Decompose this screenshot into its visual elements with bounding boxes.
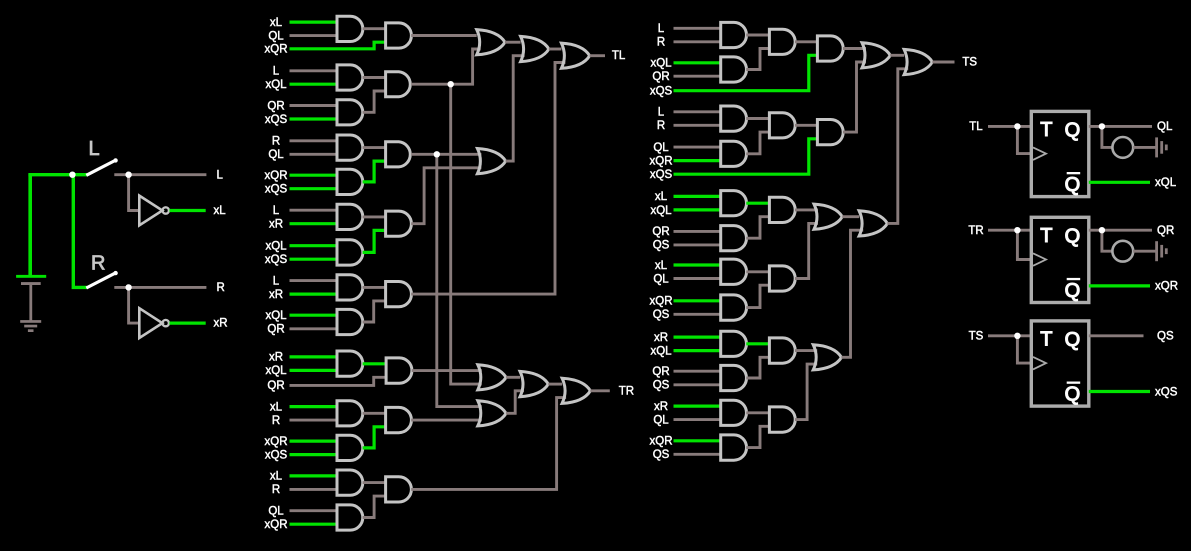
- wire OR-A to OR-B: [506, 376, 520, 379]
- wire g6 output to OR-A: [412, 369, 482, 372]
- svg-text:QL: QL: [268, 149, 284, 161]
- svg-text:xQR: xQR: [650, 296, 673, 308]
- svg-text:xL: xL: [655, 260, 668, 272]
- wire t1 output to OR-TS1: [843, 47, 866, 50]
- svg-text:L: L: [658, 23, 665, 35]
- wire g2a output: [363, 76, 386, 79]
- battery negative plate: [21, 282, 41, 285]
- switch R lever: [86, 271, 118, 288]
- wire t6a output: [746, 411, 769, 414]
- svg-text:xQL: xQL: [265, 310, 287, 322]
- wire input xQL (group 2): [290, 83, 338, 86]
- svg-text:TL: TL: [612, 50, 626, 62]
- svg-text:xR: xR: [269, 352, 283, 364]
- AND gate t3c: [769, 197, 795, 222]
- flip-flop FF3 clock triangle: [1033, 357, 1046, 370]
- OR gate OR-A: [478, 365, 506, 390]
- svg-text:xQS: xQS: [650, 86, 673, 98]
- AND gate g1b: [386, 23, 412, 48]
- svg-text:xL: xL: [270, 401, 283, 413]
- wire input xQL (group 5): [290, 314, 338, 317]
- svg-text:xQL: xQL: [650, 58, 672, 70]
- svg-text:xQL: xQL: [650, 345, 672, 357]
- svg-text:xQR: xQR: [265, 44, 288, 56]
- AND gate t5c: [769, 338, 795, 363]
- AND gate g7b (xQR,xQS): [337, 435, 363, 460]
- svg-text:xQL: xQL: [265, 79, 287, 91]
- wire OR-T56 output up to OR-TALL: [842, 230, 864, 357]
- AND gate t1c: [769, 29, 795, 54]
- svg-text:QR: QR: [652, 71, 669, 83]
- svg-text:QR: QR: [652, 366, 669, 378]
- flip-flop FF2 body: [1031, 217, 1089, 302]
- pin label Q-bar overline (FF3): [1067, 382, 1081, 384]
- wire t4b output elbow: [746, 285, 769, 307]
- svg-text:R: R: [217, 282, 225, 294]
- AND gate g8b (QL,xQR): [337, 505, 363, 530]
- svg-text:T: T: [1040, 329, 1052, 351]
- wire supply top rail to switches: [28, 173, 87, 176]
- svg-text:TS: TS: [962, 57, 977, 69]
- wire g6a output: [363, 362, 387, 365]
- svg-text:xR: xR: [269, 219, 283, 231]
- svg-text:R: R: [272, 415, 280, 427]
- wire input R (group 8): [290, 488, 338, 491]
- svg-text:xQS: xQS: [265, 254, 288, 266]
- pin label Q-bar overline (FF2): [1067, 278, 1081, 280]
- svg-text:TR: TR: [968, 225, 983, 237]
- wire input xQS (group 2): [290, 117, 338, 120]
- svg-text:L: L: [273, 275, 280, 287]
- junction FF2 Q branch: [1099, 227, 1105, 233]
- flip-flop FF1 body: [1031, 111, 1089, 196]
- svg-text:R: R: [272, 136, 280, 148]
- AND gate g6b: [386, 358, 412, 383]
- wire node L to inverter: [129, 175, 140, 211]
- wire input QR elbow (group 6): [290, 377, 387, 385]
- wire t4a output: [746, 270, 769, 273]
- AND gate t5a (xR,xQL): [721, 331, 747, 356]
- svg-text:xL: xL: [270, 17, 283, 29]
- wire input R (TS group 1): [674, 40, 721, 43]
- wire OR-T34 to OR-TALL: [842, 215, 859, 218]
- wire switch R output: [114, 286, 206, 289]
- wire OR-B to OR-D: [548, 383, 562, 386]
- AND gate t2a (L,R): [721, 106, 747, 131]
- switch L lever: [86, 158, 118, 175]
- AND gate g3c: [386, 142, 411, 167]
- wire input xQR (group 3): [290, 174, 338, 177]
- svg-text:QS: QS: [1157, 331, 1174, 343]
- svg-text:R: R: [657, 120, 665, 132]
- flip-flop FF1 clock triangle: [1033, 147, 1046, 160]
- wire g8b output elbow: [363, 496, 386, 517]
- svg-text:xL: xL: [214, 205, 227, 217]
- wire g4b output elbow: [363, 230, 386, 252]
- ground symbol: [20, 320, 41, 332]
- wire g7 output to OR-C: [411, 419, 482, 422]
- svg-text:QL: QL: [653, 273, 669, 285]
- wire g1 output to OR1: [411, 34, 477, 37]
- svg-text:xQS: xQS: [1155, 386, 1178, 398]
- svg-text:xQS: xQS: [650, 169, 673, 181]
- AND gate t3a (xL,xQL): [721, 191, 747, 216]
- wire node R to inverter: [129, 287, 140, 323]
- AND gate t2b (QL,xQR): [721, 141, 747, 166]
- svg-text:xQR: xQR: [265, 170, 288, 182]
- svg-text:QS: QS: [653, 449, 670, 461]
- wire FF3 Q output: [1089, 334, 1144, 337]
- svg-text:Q: Q: [1065, 384, 1081, 406]
- OR gate OR-B: [520, 371, 548, 396]
- wire input xL (group 8): [290, 474, 338, 477]
- ground symbol rotated (FF2): [1155, 241, 1168, 261]
- OR gate OR-TS1: [862, 43, 890, 68]
- svg-text:Q: Q: [1065, 120, 1081, 142]
- svg-text:QS: QS: [653, 309, 670, 321]
- wire t3b output elbow: [746, 217, 769, 239]
- wire input xQS (group 3): [290, 187, 338, 190]
- wire input xQL (group 6): [290, 369, 338, 372]
- wire t6 output up to OR-T56: [795, 364, 817, 420]
- wire input xQR (group 8): [290, 523, 338, 526]
- AND gate g5c: [386, 282, 412, 307]
- wire g8 output to OR-D: [411, 398, 566, 490]
- AND gate g8a (xL,R): [337, 470, 363, 495]
- wire OR-TS1 to OR-TS2: [890, 54, 904, 57]
- wire input xR (group 4): [290, 222, 338, 225]
- wire input xQL (TS group 5): [674, 349, 721, 352]
- AND gate g4b (xQL,xQS): [337, 240, 363, 265]
- ground symbol rotated (FF1): [1155, 137, 1168, 157]
- svg-text:L: L: [273, 205, 280, 217]
- wire input xR (group 5): [290, 293, 338, 296]
- wire input QS (TS group 3): [674, 243, 721, 246]
- wire input xR (TS group 5): [674, 336, 721, 339]
- wire supply vertical: [28, 174, 32, 276]
- junction FF1 clock branch: [1014, 123, 1020, 129]
- svg-text:QR: QR: [1157, 225, 1174, 237]
- svg-text:xL: xL: [655, 191, 668, 203]
- wire t5 output to OR-T56: [795, 349, 817, 352]
- svg-text:xR: xR: [269, 289, 283, 301]
- wire OR-M output up to OR2: [506, 56, 525, 161]
- svg-text:QR: QR: [267, 380, 284, 392]
- wire t3a output: [746, 202, 769, 205]
- wire input xQL (TS group 1): [674, 61, 721, 64]
- wire FF3 Q-bar output: [1089, 390, 1150, 393]
- wire input xQL (group 4): [290, 244, 338, 247]
- AND gate t1a (L,R): [721, 22, 747, 47]
- OR gate OR-T34: [814, 204, 842, 229]
- svg-text:xQL: xQL: [650, 205, 672, 217]
- inverter xL: [139, 196, 169, 226]
- wire FF2 Q to LED: [1102, 230, 1112, 251]
- junction FF2 clock branch: [1014, 227, 1020, 233]
- wire t5b output elbow: [746, 357, 769, 378]
- wire input QL (group 8): [290, 509, 338, 512]
- wire t2b output elbow: [746, 132, 769, 154]
- svg-text:xR: xR: [654, 401, 668, 413]
- wire t2 output up to OR-TS1: [843, 62, 866, 132]
- wire g3 branch down to OR-C: [437, 154, 482, 406]
- wire t1a output: [746, 34, 769, 37]
- wire g3b output elbow: [363, 161, 386, 182]
- svg-text:xQS: xQS: [265, 449, 288, 461]
- wire input xQR (TS group 2): [674, 159, 721, 162]
- AND gate t6c: [769, 407, 795, 432]
- wire TS output: [932, 61, 954, 64]
- wire input R (group 3): [290, 139, 338, 142]
- svg-text:QR: QR: [267, 100, 284, 112]
- AND gate t2d: [817, 120, 843, 145]
- svg-text:xQS: xQS: [265, 114, 288, 126]
- AND gate g3a (R,QL): [337, 135, 363, 160]
- wire inverter xR output: [170, 322, 206, 325]
- junction FF3 clock branch: [1014, 333, 1020, 339]
- svg-text:xQS: xQS: [265, 184, 288, 196]
- wire input xR (TS group 6): [674, 405, 721, 408]
- wire input xL (group 7): [290, 405, 338, 408]
- svg-text:xQR: xQR: [1155, 281, 1178, 293]
- svg-text:Q: Q: [1065, 329, 1081, 351]
- svg-text:Q: Q: [1065, 226, 1081, 248]
- AND gate t6a (xR,QL): [721, 400, 747, 425]
- AND gate t6b (xQR,QS): [721, 435, 747, 460]
- wire input QR (group 5): [290, 327, 338, 330]
- LED indicator QR: [1112, 241, 1133, 262]
- flip-flop FF2 clock triangle: [1033, 253, 1046, 265]
- svg-text:T: T: [1040, 225, 1052, 247]
- wire g5 output to OR3: [411, 63, 565, 295]
- wire g3 output to OR-M: [411, 153, 481, 156]
- wire input QL (TS group 4): [674, 277, 721, 280]
- OR gate OR2: [521, 36, 549, 61]
- wire TR to FF2: [988, 229, 1031, 232]
- wire g3a output: [363, 146, 386, 149]
- wire t6b output elbow: [746, 426, 769, 447]
- svg-text:QL: QL: [268, 30, 284, 42]
- wire g2 branch down to OR-A: [451, 84, 482, 384]
- wire input QR (TS group 3): [674, 230, 721, 233]
- wire t2c output: [795, 124, 817, 127]
- svg-text:QR: QR: [267, 324, 284, 336]
- svg-text:Q: Q: [1065, 280, 1081, 302]
- wire input QR (TS group 5): [674, 370, 721, 373]
- wire t3 output to OR-T34: [795, 208, 818, 211]
- AND gate g8c: [386, 477, 412, 502]
- svg-text:xQL: xQL: [265, 365, 287, 377]
- wire g2b output elbow: [363, 91, 386, 112]
- junction node R: [125, 284, 131, 290]
- wire input xQS (group 7): [290, 453, 338, 456]
- wire g1a output: [363, 27, 386, 30]
- wire input QS (TS group 5): [674, 383, 721, 386]
- wire g2 output to OR1 elbow: [411, 49, 481, 84]
- wire input L (TS group 2): [674, 110, 721, 113]
- power source and input switches section: [0, 0, 1, 1]
- wire input xR (group 6): [290, 355, 338, 358]
- svg-text:TR: TR: [619, 385, 634, 397]
- wire input xQR elbow (group 1): [290, 42, 386, 49]
- svg-text:QS: QS: [653, 240, 670, 252]
- OR gate OR3: [561, 43, 589, 68]
- wire input QL (TS group 2): [674, 146, 721, 149]
- wire input QR (group 2): [290, 104, 338, 107]
- AND gate g2c: [386, 72, 411, 97]
- wire input L (group 5): [290, 279, 338, 282]
- wire input QR (TS group 1): [674, 75, 721, 78]
- wire input QL (TS group 6): [674, 418, 721, 421]
- svg-text:QR: QR: [652, 226, 669, 238]
- wire g7a output: [363, 412, 386, 415]
- wire input L (group 2): [290, 69, 338, 72]
- junction g3 output branch: [434, 151, 440, 157]
- inverter xR: [139, 308, 169, 338]
- wire switch L output: [114, 173, 206, 176]
- pin label Q-bar overline (FF1): [1067, 172, 1081, 174]
- svg-text:xQL: xQL: [1155, 177, 1177, 189]
- wire input xQR (group 7): [290, 440, 338, 443]
- junction node L: [125, 172, 131, 178]
- wire input xL (group 1): [290, 21, 338, 24]
- svg-text:Q: Q: [1065, 174, 1081, 196]
- wire g7b output elbow: [363, 427, 386, 448]
- wire input QS (TS group 6): [674, 453, 721, 456]
- wire FF1 Q output: [1089, 125, 1152, 128]
- LED indicator QL: [1112, 137, 1133, 158]
- AND gate t4c: [769, 266, 795, 291]
- wire input L (TS group 1): [674, 27, 721, 30]
- AND gate g6a (xR,xQL): [337, 351, 363, 376]
- wire g4 output to OR-M: [411, 168, 481, 224]
- AND gate t2c: [769, 113, 795, 138]
- svg-text:xQR: xQR: [265, 436, 288, 448]
- AND gate g4c: [386, 211, 412, 236]
- wire g8a output: [363, 481, 386, 484]
- svg-text:QL: QL: [653, 142, 669, 154]
- AND gate g2b (QR,xQS): [337, 100, 363, 125]
- wire OR-TALL output up to OR-TS2: [887, 69, 908, 224]
- svg-text:TL: TL: [969, 121, 983, 133]
- OR gate OR-TS2: [904, 49, 932, 74]
- wire FF3 clock elbow: [1017, 336, 1031, 363]
- wire TL output: [590, 54, 605, 57]
- wire battery to ground: [29, 285, 32, 322]
- AND gate t3b (QR,QS): [721, 226, 747, 251]
- wire TS to FF3: [988, 334, 1031, 337]
- svg-text:L: L: [217, 169, 224, 181]
- svg-text:xQR: xQR: [265, 519, 288, 531]
- wire FF1 Q-bar output: [1089, 181, 1150, 184]
- svg-text:xQR: xQR: [650, 436, 673, 448]
- wire TR output: [590, 389, 609, 392]
- wire FF1 Q to LED: [1102, 126, 1112, 147]
- AND gate g2a (L,xQL): [337, 65, 363, 90]
- AND gate t4a (xL,QL): [721, 259, 747, 284]
- OR gate OR-C: [478, 401, 506, 426]
- svg-text:xL: xL: [270, 471, 283, 483]
- svg-text:R: R: [272, 484, 280, 496]
- AND gate g4a (L,xR): [337, 204, 363, 229]
- wire TL to FF1: [988, 125, 1031, 128]
- svg-text:xQR: xQR: [650, 155, 673, 167]
- svg-text:R: R: [657, 37, 665, 49]
- wire input QL (group 3): [290, 153, 338, 156]
- battery positive plate: [16, 275, 46, 278]
- AND gate g7a (xL,R): [337, 401, 363, 426]
- wire input xL (TS group 3): [674, 195, 721, 198]
- svg-text:L: L: [658, 107, 665, 119]
- wire input QL (group 1): [290, 34, 338, 37]
- svg-text:T: T: [1040, 119, 1052, 141]
- svg-text:L: L: [273, 66, 280, 78]
- svg-text:L: L: [89, 138, 100, 160]
- svg-text:xR: xR: [214, 318, 228, 330]
- wire FF2 Q-bar output: [1089, 284, 1150, 287]
- wire FF2 Q output: [1089, 229, 1152, 232]
- wire OR2 to OR3: [549, 48, 562, 51]
- wire g5a output: [363, 286, 386, 289]
- wire input xQS elbow (TS group 2): [674, 139, 818, 174]
- wire LED to ground (FF1): [1133, 146, 1156, 149]
- wire LED to ground (FF2): [1133, 250, 1156, 253]
- OR gate OR-M: [477, 149, 505, 174]
- AND gate t4b (xQR,QS): [721, 295, 747, 320]
- flip-flop FF3 body: [1031, 321, 1089, 406]
- wire inverter xL output: [170, 209, 206, 212]
- wire input xQS (group 4): [290, 258, 338, 261]
- wire t2a output: [746, 117, 769, 120]
- AND gate g7c: [386, 407, 412, 432]
- OR gate OR1: [477, 30, 505, 55]
- AND gate g1a (xL,QL): [337, 16, 363, 41]
- AND gate g5b (xQL,QR): [337, 309, 363, 334]
- wire input xQS elbow (TS group 1): [674, 55, 818, 90]
- OR gate OR-D: [562, 378, 590, 403]
- wire t4 output up to OR-T34: [795, 223, 818, 278]
- wire input R (group 7): [290, 419, 338, 422]
- wire input xL (TS group 4): [674, 263, 721, 266]
- wire input xQR (TS group 4): [674, 299, 721, 302]
- svg-text:QL: QL: [268, 506, 284, 518]
- svg-text:QL: QL: [653, 414, 669, 426]
- junction supply rail: [69, 172, 75, 178]
- AND gate g5a (L,xR): [337, 275, 363, 300]
- wire input L (group 4): [290, 209, 338, 212]
- wire t1b output elbow: [746, 49, 769, 70]
- svg-text:xQL: xQL: [265, 241, 287, 253]
- svg-text:xR: xR: [654, 332, 668, 344]
- wire input xQR (TS group 6): [674, 439, 721, 442]
- wire input R (TS group 2): [674, 124, 721, 127]
- wire supply drop to switch R: [73, 175, 87, 288]
- svg-text:TS: TS: [969, 331, 984, 343]
- AND gate t1b (xQL,QR): [721, 57, 747, 82]
- wire FF1 clock elbow: [1017, 126, 1031, 153]
- OR gate OR-TALL: [859, 211, 887, 236]
- AND gate t1d: [817, 36, 843, 61]
- wire t1c output: [795, 40, 817, 43]
- svg-text:R: R: [91, 253, 105, 275]
- wire OR1 to OR2: [505, 41, 521, 44]
- AND gate g3b (xQR,xQS): [337, 169, 363, 194]
- OR gate OR-T56: [813, 345, 841, 370]
- wire g4a output: [363, 215, 386, 218]
- AND gate t5b (QR,QS): [721, 365, 747, 390]
- wire input xQL (TS group 3): [674, 208, 721, 211]
- wire OR-C output up to OR-B: [506, 391, 524, 414]
